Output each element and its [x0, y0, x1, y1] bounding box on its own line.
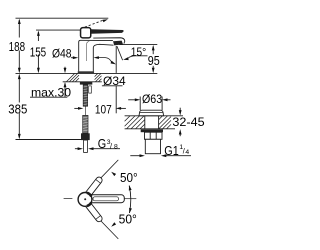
svg-text:4: 4 [185, 149, 189, 156]
svg-text:95: 95 [148, 53, 160, 68]
svg-text:15°: 15° [131, 46, 146, 59]
svg-text:385: 385 [8, 102, 27, 117]
svg-text:Ø63: Ø63 [142, 93, 162, 106]
svg-text:50°: 50° [120, 170, 138, 185]
svg-text:G: G [98, 137, 106, 151]
svg-text:50°: 50° [119, 212, 137, 226]
svg-text:Ø48: Ø48 [52, 48, 72, 61]
svg-text:8: 8 [114, 144, 118, 151]
svg-text:32-45: 32-45 [172, 115, 204, 129]
svg-text:188: 188 [9, 41, 25, 55]
svg-text:Ø34: Ø34 [103, 74, 126, 88]
svg-text:107: 107 [95, 104, 112, 117]
svg-text:max.30: max.30 [31, 85, 71, 99]
svg-text:155: 155 [30, 46, 46, 60]
svg-text:G1: G1 [164, 144, 178, 158]
